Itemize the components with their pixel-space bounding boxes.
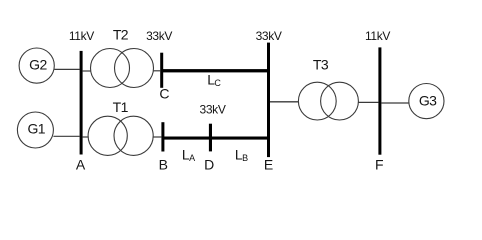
wire bus A to T1 [83,136,89,138]
wire T1 to bus B [153,136,161,138]
wire bus F to G3 [381,102,409,104]
generator G3 [409,84,444,119]
svg-text:A: A [76,157,86,173]
bus B [161,122,164,151]
svg-text:T3: T3 [313,56,329,72]
generator G2 [19,48,54,83]
svg-text:11kV: 11kV [365,29,390,43]
svg-text:G1: G1 [27,121,45,137]
wire G2 to bus A [54,68,79,70]
transformer T3 [298,82,358,120]
svg-text:T2: T2 [113,26,129,42]
generator G1 [17,112,53,148]
transformer T2 [91,49,154,88]
svg-text:F: F [375,157,383,173]
bus D [209,124,212,152]
svg-text:11kV: 11kV [69,29,94,43]
svg-text:G3: G3 [419,93,437,109]
wire T2 to bus C [154,70,161,72]
transformer T1 [88,116,153,155]
bus A [80,51,83,155]
wire T3 to bus F [358,101,378,103]
svg-text:G2: G2 [29,57,47,73]
line LB (bus D to bus E) [210,137,269,140]
wire bus A to T2 [83,70,91,72]
svg-text:33kV: 33kV [256,29,282,43]
line LC (bus C to bus E) [162,69,269,72]
svg-text:33kV: 33kV [146,29,172,43]
svg-text:E: E [264,157,273,173]
bus C [160,53,163,88]
wire bus E to T3 [270,101,299,103]
line LA (bus B to bus D) [163,137,211,140]
svg-text:D: D [204,157,214,173]
svg-text:B: B [159,157,168,173]
svg-text:C: C [159,86,169,102]
bus F [378,47,381,154]
bus E [267,43,270,158]
svg-text:T1: T1 [113,99,129,115]
svg-text:33kV: 33kV [200,103,226,117]
wire G1 to bus A [53,135,79,137]
